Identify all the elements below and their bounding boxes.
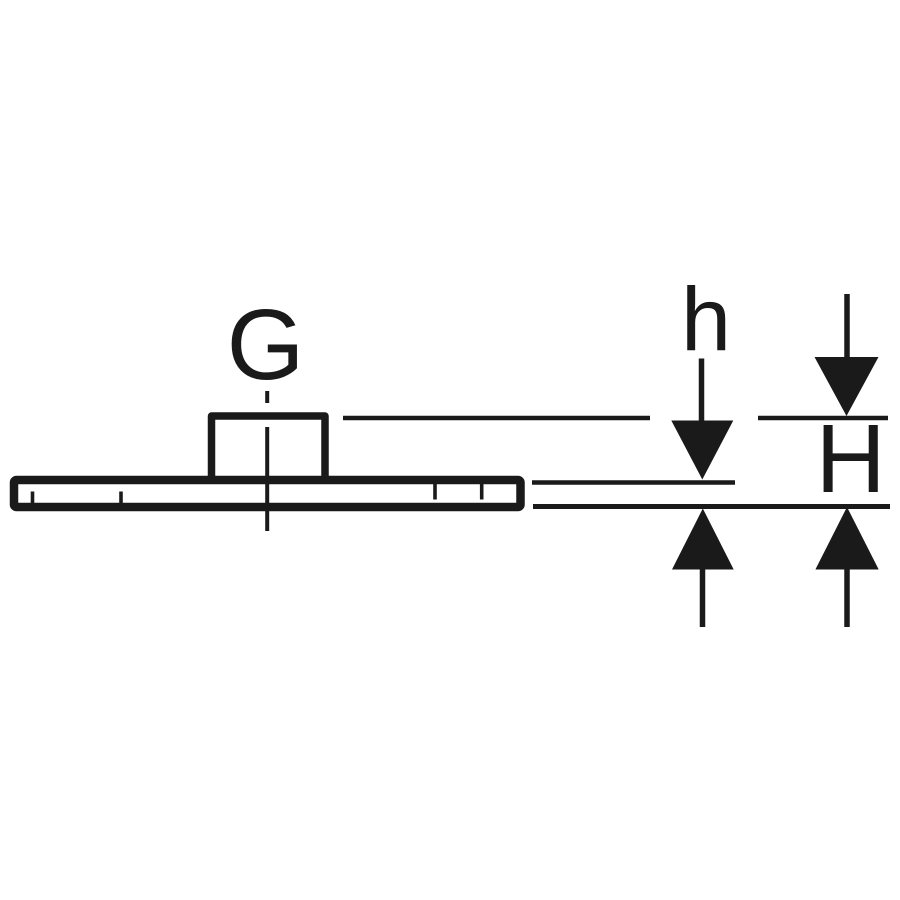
svg-text:G: G xyxy=(227,289,305,401)
lower-right arrowhead up xyxy=(815,507,878,570)
plate outline xyxy=(14,480,521,507)
centerline dash xyxy=(265,391,269,403)
dimension line at boss top, right segment xyxy=(758,416,888,421)
dimension line at plate top xyxy=(532,480,735,485)
svg-text:h: h xyxy=(681,271,731,371)
tick mark 3 (top, right-mid) xyxy=(433,483,437,500)
lower-left arrow tail xyxy=(700,569,706,627)
dimension line at plate bottom xyxy=(533,504,890,509)
centerline main xyxy=(265,427,269,531)
dimension line at boss top, left segment xyxy=(343,416,650,421)
tick mark 1 (bottom, left) xyxy=(31,492,35,504)
svg-text:H: H xyxy=(816,404,886,513)
tick mark 2 (bottom, left-mid) xyxy=(119,492,123,504)
boss / bump outline xyxy=(212,416,326,481)
tick mark 4 (top, right) xyxy=(480,483,484,500)
H arrowhead down xyxy=(815,357,879,416)
lower-right arrow tail xyxy=(844,569,850,627)
h arrowhead down xyxy=(671,421,733,480)
lower-left arrowhead up xyxy=(672,509,734,570)
H arrow tail (upper) xyxy=(844,294,850,358)
h arrow tail (upper) xyxy=(699,359,705,422)
